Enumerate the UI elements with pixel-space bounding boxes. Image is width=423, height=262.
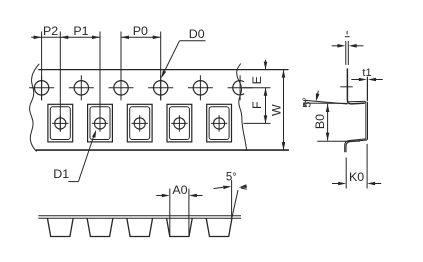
svg-text:D1: D1	[53, 167, 69, 181]
svg-text:F: F	[250, 101, 264, 109]
svg-text:D0: D0	[189, 27, 205, 41]
svg-text:A0: A0	[172, 183, 187, 197]
svg-text:P0: P0	[133, 24, 148, 38]
svg-text:W: W	[269, 104, 283, 116]
svg-text:5°: 5°	[302, 97, 314, 108]
svg-text:E: E	[250, 76, 264, 84]
svg-text:P2: P2	[43, 24, 58, 38]
svg-text:5°: 5°	[226, 171, 237, 183]
svg-text:K0: K0	[349, 170, 364, 184]
svg-text:P1: P1	[73, 24, 88, 38]
svg-text:B0: B0	[313, 114, 327, 129]
